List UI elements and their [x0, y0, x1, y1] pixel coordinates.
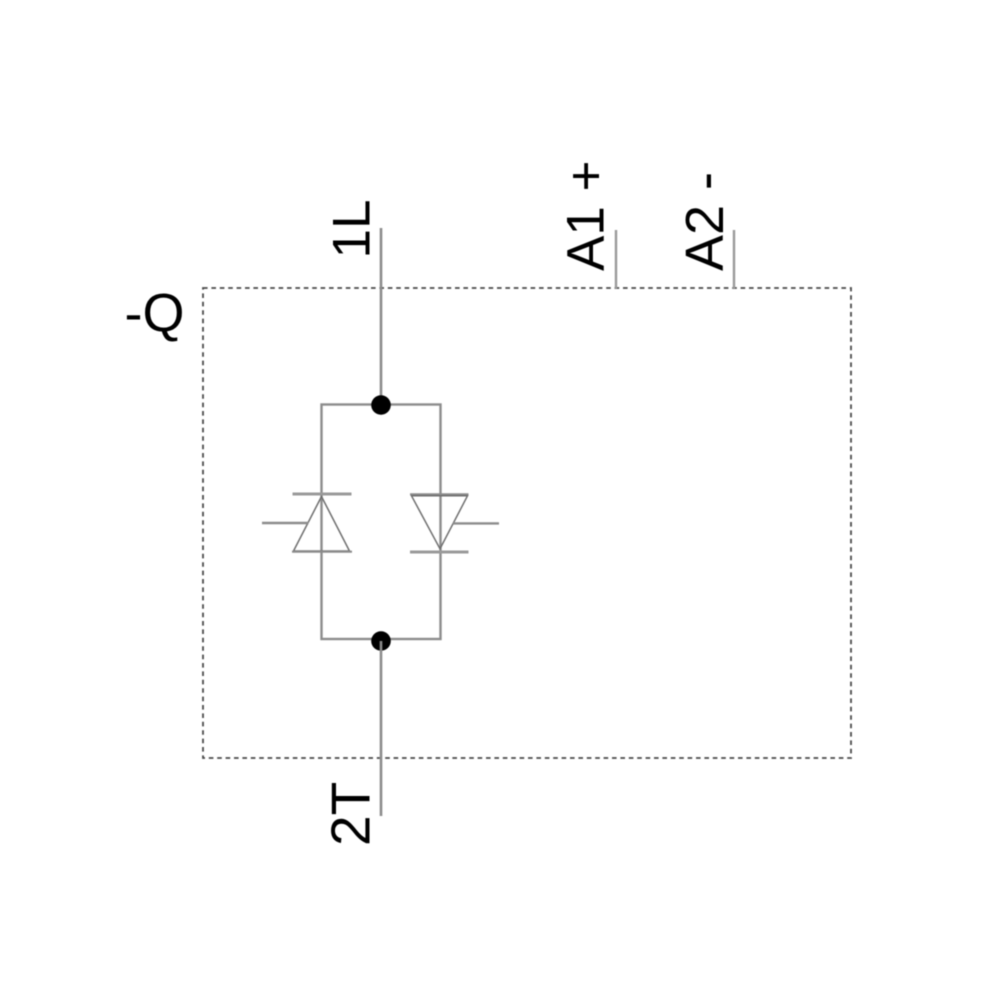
thyristor V1 triangle: [294, 497, 350, 552]
thyristor V1 cathode bar: [293, 493, 352, 496]
svg-text:1L: 1L: [323, 200, 382, 259]
thyristor V2 gate lead: [453, 522, 499, 524]
wire A2 control stub: [733, 230, 735, 289]
thyristor V2 anode bar: [410, 493, 469, 495]
wire 1L terminal lead: [380, 228, 383, 404]
node junction top: [371, 395, 391, 415]
enclosure -Q dashed outline: [203, 288, 851, 758]
svg-text:A2 -: A2 -: [675, 172, 735, 271]
wire A1 control stub: [615, 230, 617, 289]
thyristor V1 gate lead: [262, 522, 309, 524]
svg-text:-Q: -Q: [125, 284, 185, 344]
thyristor V1 anode bar: [292, 551, 352, 553]
thyristor V2 cathode bar: [410, 551, 469, 554]
thyristor V2 triangle: [412, 496, 468, 549]
wire 2T terminal lead: [380, 641, 383, 816]
svg-text:A1 +: A1 +: [557, 160, 616, 271]
node junction bottom: [371, 631, 391, 651]
wire parallel loop: [322, 405, 441, 640]
svg-text:2T: 2T: [320, 782, 382, 846]
